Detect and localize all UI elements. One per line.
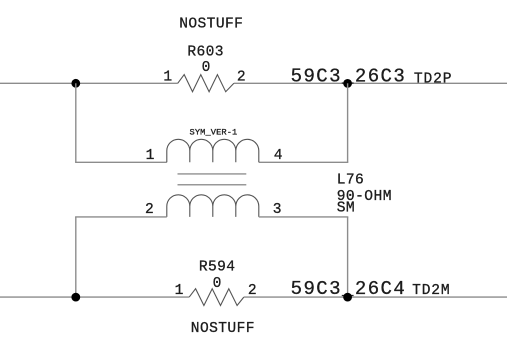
wire: top horizontal net 59C3_26C3, right segment (234, 82, 507, 84)
svg-text:SM: SM (337, 201, 355, 217)
svg-text:0: 0 (202, 60, 211, 76)
resistor R603 zigzag (178, 75, 234, 92)
inductor L76 top winding (4 arcs) (167, 139, 259, 162)
inductor L76 bottom winding (4 arcs) (167, 195, 259, 217)
svg-text:R594: R594 (199, 259, 235, 275)
transformer core line 1 (178, 173, 247, 175)
wire: lead from pin 3 of L76 bottom winding (259, 216, 349, 218)
svg-text:TD2P: TD2P (414, 72, 452, 88)
wire: bottom horizontal net 59C3_26C4, right segment (244, 296, 507, 298)
resistor R594 zigzag (189, 289, 244, 306)
svg-text:R603: R603 (187, 45, 223, 61)
wire: lead from pin 4 of L76 top winding (259, 161, 349, 163)
wire: lead to pin 2 of L76 bottom winding (75, 216, 167, 218)
svg-text:2: 2 (237, 69, 246, 85)
svg-text:L76: L76 (337, 173, 364, 189)
wire: bottom horizontal net 59C3_26C4, left segment (0, 296, 189, 298)
wire: left vertical from winding pin 2 down to bottom node (75, 217, 77, 297)
svg-text:1: 1 (146, 148, 155, 164)
svg-text:NOSTUFF: NOSTUFF (191, 321, 255, 337)
wire: right vertical from winding pin 3 down to bottom node (347, 217, 349, 297)
wire: left vertical from top node down to winding 1-4 (75, 83, 77, 162)
svg-text:3: 3 (273, 202, 282, 218)
transformer core line 2 (178, 184, 247, 186)
svg-text:0: 0 (213, 276, 222, 292)
wire: top horizontal net 59C3_26C3, left segment (0, 82, 178, 84)
svg-text:SYM_VER-1: SYM_VER-1 (190, 128, 238, 138)
junction dot at bottom-left node (71, 293, 80, 302)
svg-text:NOSTUFF: NOSTUFF (179, 17, 243, 33)
svg-text:2: 2 (145, 202, 154, 218)
junction dot at bottom-right node (343, 293, 352, 302)
junction dot at top-left node (71, 79, 80, 88)
junction dot at top-right node (343, 79, 352, 88)
wire: right vertical from winding pin 4 up to top node (347, 83, 349, 162)
svg-text:4: 4 (274, 148, 283, 164)
svg-text:1: 1 (163, 69, 172, 85)
wire: lead to pin 1 of L76 top winding (75, 161, 167, 163)
